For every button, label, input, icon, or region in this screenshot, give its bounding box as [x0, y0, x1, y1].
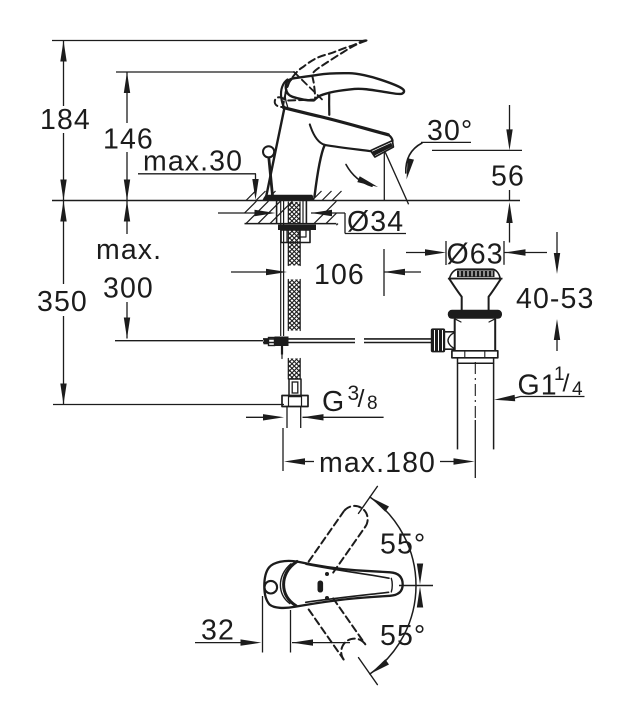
svg-text:/: /	[358, 385, 366, 413]
svg-text:350: 350	[37, 286, 88, 318]
svg-text:/: /	[563, 370, 571, 398]
svg-text:55°: 55°	[380, 529, 426, 561]
svg-text:40-53: 40-53	[516, 283, 594, 315]
svg-text:184: 184	[40, 104, 91, 136]
svg-text:G1: G1	[518, 370, 558, 402]
svg-text:32: 32	[201, 615, 235, 647]
svg-text:max.180: max.180	[319, 447, 436, 479]
svg-text:56: 56	[491, 161, 525, 193]
svg-text:55°: 55°	[380, 620, 426, 652]
svg-text:4: 4	[572, 379, 584, 400]
svg-text:G: G	[322, 386, 345, 418]
svg-text:Ø63: Ø63	[447, 239, 504, 271]
svg-text:8: 8	[367, 393, 379, 414]
svg-text:max.: max.	[96, 234, 162, 266]
svg-text:Ø34: Ø34	[347, 206, 404, 238]
svg-text:106: 106	[314, 259, 365, 291]
svg-text:300: 300	[103, 273, 154, 305]
svg-text:max.30: max.30	[143, 146, 243, 178]
